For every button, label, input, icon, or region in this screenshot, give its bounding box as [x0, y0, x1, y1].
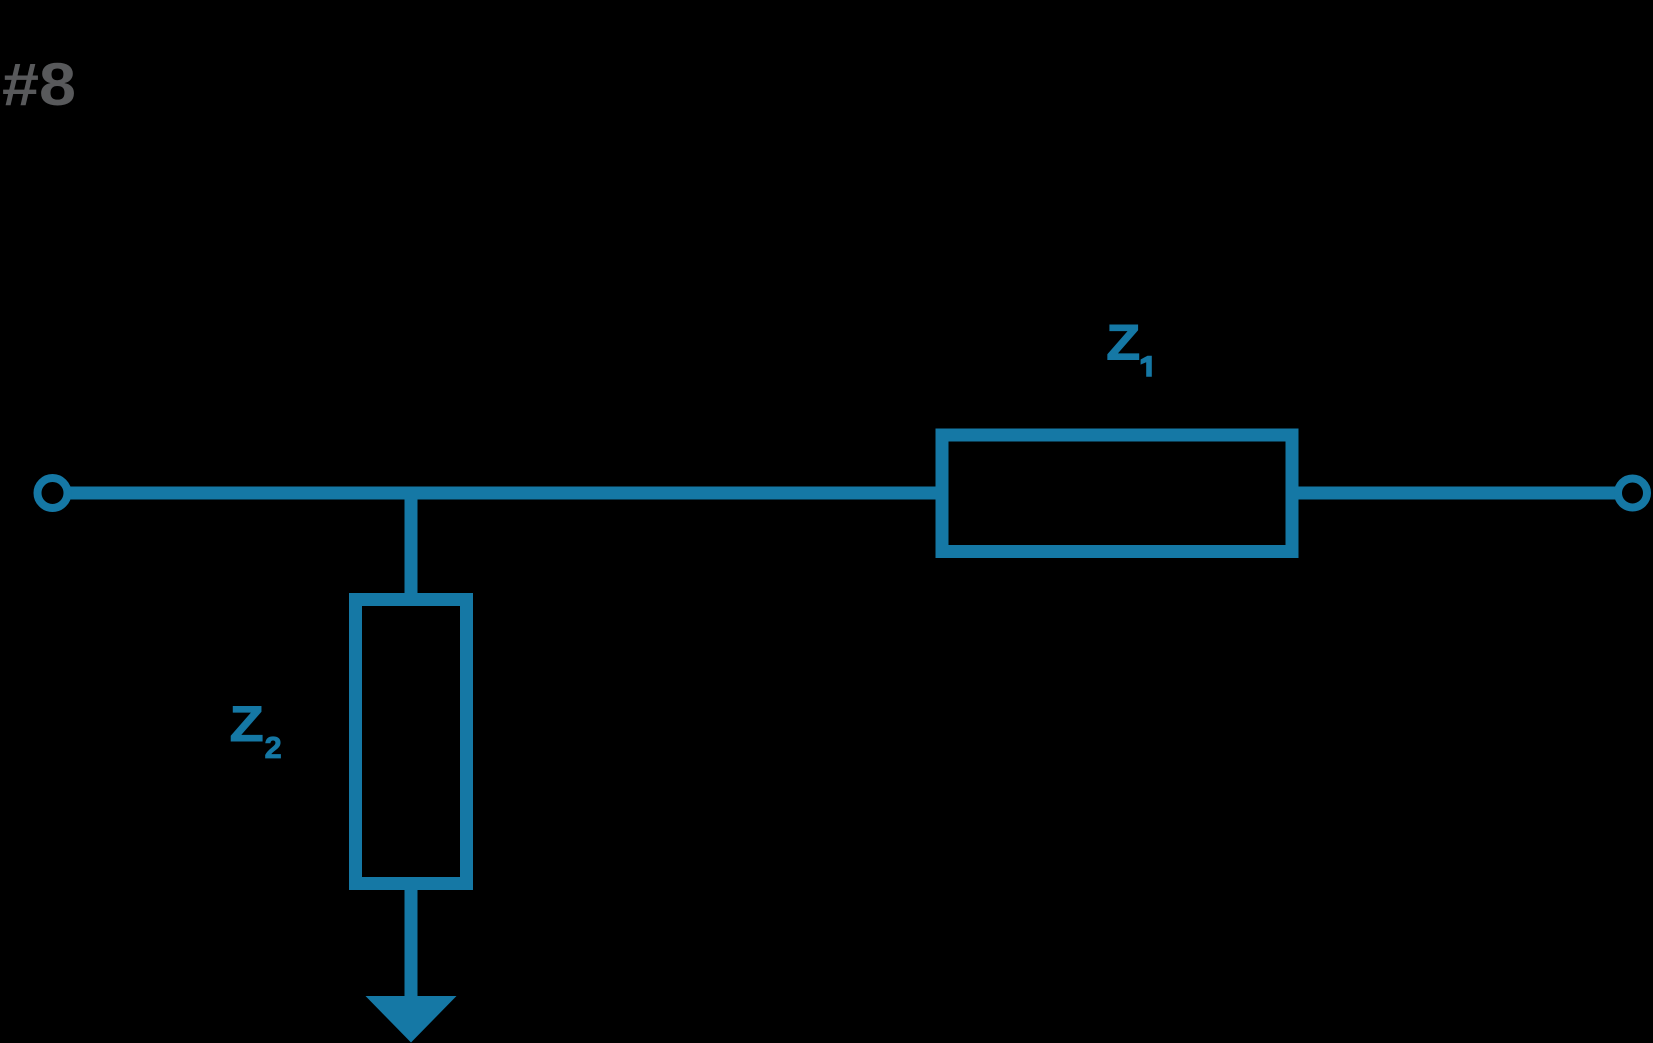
svg-text:Z: Z	[1106, 315, 1140, 371]
svg-text:Z: Z	[230, 696, 264, 752]
svg-text:#8: #8	[2, 51, 76, 118]
svg-text:2: 2	[265, 730, 282, 765]
